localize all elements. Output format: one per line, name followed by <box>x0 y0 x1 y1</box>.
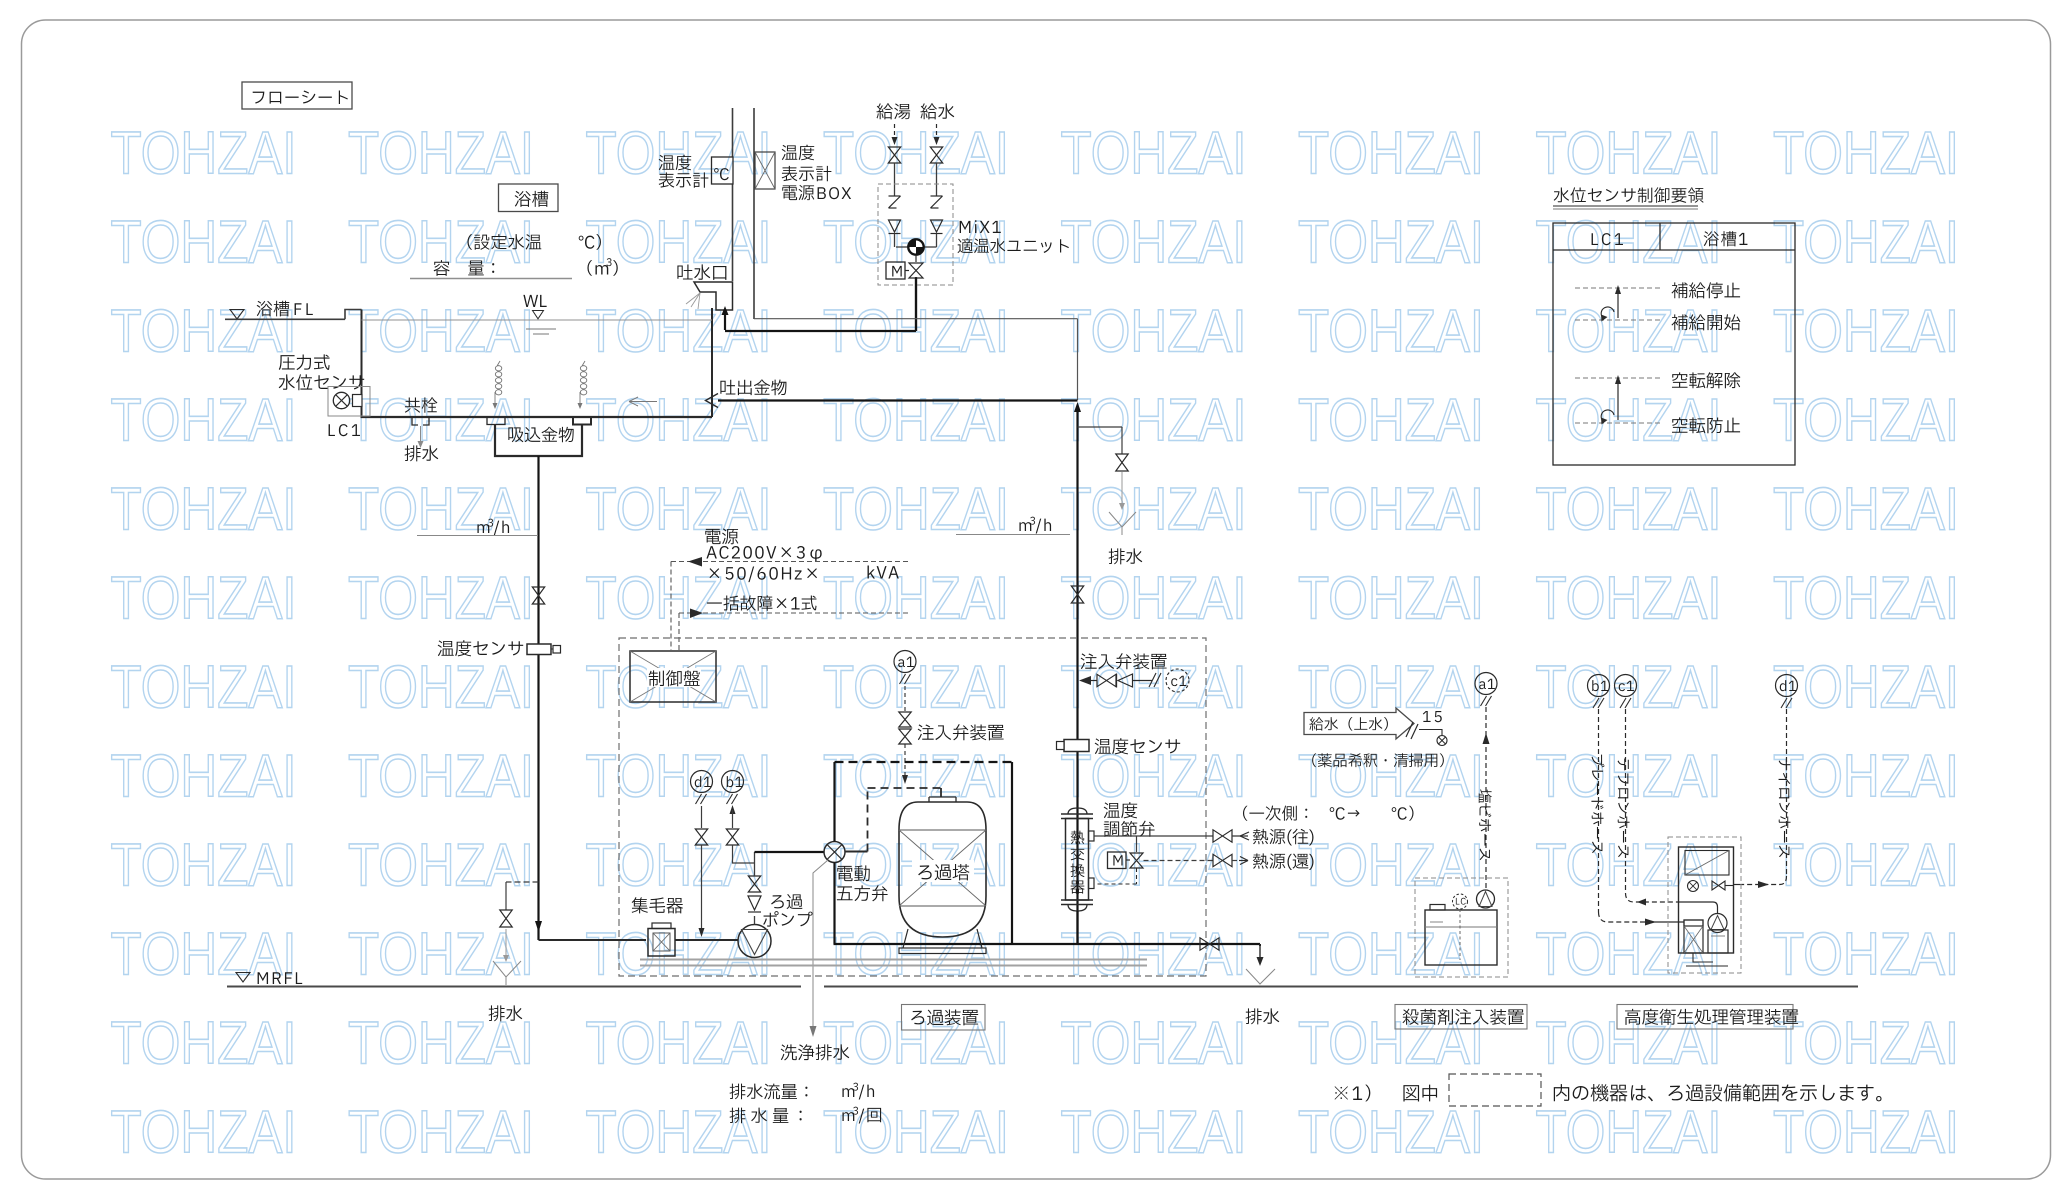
svg-text:TOHZAI: TOHZAI <box>1773 743 1959 810</box>
power dashed verticals <box>670 562 672 651</box>
jet spray symbol left <box>495 366 501 395</box>
text 給湯 <box>876 103 910 119</box>
control box 制御盤 <box>630 651 716 702</box>
svg-text:TOHZAI: TOHZAI <box>1061 565 1247 632</box>
text m3/h right <box>1019 522 1031 531</box>
LC dashed circle <box>1453 894 1468 909</box>
power box symbol <box>755 152 775 189</box>
svg-text:TOHZAI: TOHZAI <box>1536 1099 1722 1166</box>
text 排水量 <box>730 1108 746 1124</box>
tub rim step <box>345 310 362 320</box>
discharge fitting 吐出金物 <box>706 394 719 408</box>
heat source supply line 熱源(往) <box>1094 835 1213 837</box>
svg-text:TOHZAI: TOHZAI <box>586 387 772 454</box>
backwash dash line to tower neck <box>845 851 868 853</box>
text 共栓 <box>405 397 438 412</box>
text m3/h left <box>477 524 489 533</box>
a1 hose line <box>1485 707 1487 889</box>
WL marker <box>523 295 546 307</box>
tub FL line <box>225 318 345 320</box>
text 排水 top right <box>1109 548 1143 564</box>
sanitary device filter cartridge <box>1684 920 1703 953</box>
d1 circle right <box>1776 675 1798 697</box>
共栓 fitting <box>412 417 418 425</box>
reference line from wall <box>754 318 1078 320</box>
valve on suction line <box>532 587 544 604</box>
MRFL marker <box>236 973 250 983</box>
text 容量 <box>434 260 495 276</box>
svg-text:TOHZAI: TOHZAI <box>586 1010 772 1077</box>
b1 hose line <box>1598 709 1600 912</box>
a1 connection circle <box>894 651 916 673</box>
drain branch top right <box>1078 426 1123 428</box>
text 注入弁装置 center <box>918 724 1004 740</box>
pipe collector to pump <box>675 939 738 941</box>
sanitary device body <box>1679 847 1734 953</box>
d1 connection circle <box>691 771 713 793</box>
motor valve branch <box>1136 836 1138 852</box>
svg-text:TOHZAI: TOHZAI <box>1773 654 1959 721</box>
MIX unit dashed box <box>878 184 953 285</box>
svg-text:TOHZAI: TOHZAI <box>1061 1010 1247 1077</box>
svg-text:TOHZAI: TOHZAI <box>1536 565 1722 632</box>
svg-text:TOHZAI: TOHZAI <box>1773 476 1959 543</box>
power dashed line 2 <box>679 612 911 614</box>
svg-text:TOHZAI: TOHZAI <box>111 832 297 899</box>
sanitary device stand <box>1693 953 1713 962</box>
temp sensor on riser <box>1064 740 1089 752</box>
text ナイロンホース vertical <box>1779 758 1791 857</box>
drain to funnel right <box>1259 944 1261 946</box>
svg-text:TOHZAI: TOHZAI <box>1298 1010 1484 1077</box>
sanitary device dashed box <box>1668 837 1741 973</box>
pressure level sensor label <box>279 354 330 370</box>
pump discharge to 5-way valve <box>755 851 825 853</box>
text 排水流量 <box>730 1084 808 1100</box>
tub bottom <box>361 416 713 418</box>
svg-text:TOHZAI: TOHZAI <box>1773 120 1959 187</box>
svg-text:TOHZAI: TOHZAI <box>348 120 534 187</box>
a1 injection line <box>904 686 906 711</box>
svg-text:TOHZAI: TOHZAI <box>1298 120 1484 187</box>
valve 給湯 <box>888 147 900 163</box>
svg-text:TOHZAI: TOHZAI <box>348 209 534 276</box>
suction pipe down <box>537 456 539 921</box>
svg-text:TOHZAI: TOHZAI <box>348 1099 534 1166</box>
svg-text:TOHZAI: TOHZAI <box>111 387 297 454</box>
suction line to hair collector <box>539 939 647 941</box>
svg-text:TOHZAI: TOHZAI <box>111 120 297 187</box>
svg-text:TOHZAI: TOHZAI <box>111 921 297 988</box>
svg-text:TOHZAI: TOHZAI <box>348 654 534 721</box>
svg-text:TOHZAI: TOHZAI <box>348 298 534 365</box>
a1 circle right <box>1475 673 1497 695</box>
return riser with up arrow <box>1074 402 1081 412</box>
jet spray symbol right <box>580 366 586 395</box>
text 給水 <box>920 103 954 119</box>
heat source return line 熱源(還) <box>1144 860 1214 862</box>
block arrow 給水(上水) <box>1304 708 1414 739</box>
b1 connection circle <box>722 771 744 793</box>
panel row 空転防止 <box>1575 422 1660 424</box>
svg-text:TOHZAI: TOHZAI <box>1298 298 1484 365</box>
panel arrow 1 <box>1617 293 1619 318</box>
svg-text:TOHZAI: TOHZAI <box>823 387 1009 454</box>
panel header LC1 <box>1592 233 1623 245</box>
svg-text:TOHZAI: TOHZAI <box>1061 921 1247 988</box>
svg-text:TOHZAI: TOHZAI <box>1298 565 1484 632</box>
svg-text:TOHZAI: TOHZAI <box>823 743 1009 810</box>
svg-text:TOHZAI: TOHZAI <box>348 1010 534 1077</box>
svg-text:TOHZAI: TOHZAI <box>348 476 534 543</box>
text 温度調節弁 <box>1104 802 1137 818</box>
discharge pipe 吐出金物 line <box>718 399 1078 401</box>
svg-text:TOHZAI: TOHZAI <box>1773 832 1959 899</box>
svg-text:TOHZAI: TOHZAI <box>586 120 772 187</box>
svg-text:TOHZAI: TOHZAI <box>111 565 297 632</box>
svg-text:TOHZAI: TOHZAI <box>1536 120 1722 187</box>
equipment base gray lines <box>640 959 1147 961</box>
svg-text:TOHZAI: TOHZAI <box>111 1010 297 1077</box>
svg-text:TOHZAI: TOHZAI <box>1298 832 1484 899</box>
text 50/60Hz <box>709 566 817 582</box>
hair collector 集毛器 <box>632 897 683 913</box>
b1 line <box>730 805 736 814</box>
pump discharge check valves <box>754 916 756 925</box>
svg-text:TOHZAI: TOHZAI <box>111 476 297 543</box>
svg-text:TOHZAI: TOHZAI <box>348 387 534 454</box>
d1 hose line <box>1786 709 1788 876</box>
svg-text:TOHZAI: TOHZAI <box>1061 743 1247 810</box>
text 設定水温 <box>467 234 541 250</box>
power dashed line 1 <box>671 561 911 563</box>
svg-text:TOHZAI: TOHZAI <box>1298 476 1484 543</box>
wall pipe left <box>732 108 734 157</box>
svg-text:TOHZAI: TOHZAI <box>1061 387 1247 454</box>
panel row 空転解除 <box>1575 377 1660 379</box>
svg-text:TOHZAI: TOHZAI <box>586 209 772 276</box>
level sensor LC1 symbol <box>328 387 370 417</box>
valve on bottom drain line <box>1200 938 1219 950</box>
drain funnel left <box>493 961 521 977</box>
watermark TOHZAI grid <box>111 120 1960 1166</box>
共栓 drain arrow <box>420 426 422 442</box>
filtration enclosure dashed box <box>619 638 1206 976</box>
label box 殺菌剤注入装置 <box>1395 1005 1527 1030</box>
text 洗浄排水 <box>781 1044 850 1060</box>
panel title 水位センサ制御要領 <box>1554 187 1704 203</box>
svg-text:TOHZAI: TOHZAI <box>1298 743 1484 810</box>
tub right wall <box>711 308 713 417</box>
filter pump ろ過ポンプ <box>771 894 802 909</box>
svg-text:TOHZAI: TOHZAI <box>1061 120 1247 187</box>
svg-text:TOHZAI: TOHZAI <box>111 209 297 276</box>
suction fitting box <box>495 425 582 457</box>
M motor valve <box>915 256 917 263</box>
text 塩ビホース vertical <box>1479 789 1492 860</box>
drain branch left <box>506 881 539 883</box>
panel arrow 2 <box>1617 383 1619 420</box>
panel hook 1 <box>1601 307 1614 318</box>
svg-text:TOHZAI: TOHZAI <box>1773 921 1959 988</box>
text 排水 bottom right <box>1246 1008 1280 1024</box>
svg-text:TOHZAI: TOHZAI <box>1061 654 1247 721</box>
MRFL floor line <box>227 986 801 988</box>
title box フローシート <box>242 82 352 109</box>
svg-text:TOHZAI: TOHZAI <box>1061 1099 1247 1166</box>
mixing valve MIX1 <box>896 246 908 248</box>
svg-text:TOHZAI: TOHZAI <box>1536 476 1722 543</box>
temp sensor left <box>438 640 524 656</box>
return pipe into spout <box>724 314 726 330</box>
sterilizer tank <box>1425 910 1497 965</box>
svg-text:TOHZAI: TOHZAI <box>823 120 1009 187</box>
label box 高度衛生処理管理装置 <box>1617 1005 1793 1030</box>
svg-text:TOHZAI: TOHZAI <box>1061 298 1247 365</box>
panel row 補給開始 <box>1575 319 1660 321</box>
svg-text:TOHZAI: TOHZAI <box>348 743 534 810</box>
text 吸込金物 <box>508 427 573 443</box>
text 温度表示計 left <box>659 155 692 171</box>
svg-text:TOHZAI: TOHZAI <box>1536 1010 1722 1077</box>
label box 浴槽 <box>499 184 559 212</box>
svg-text:TOHZAI: TOHZAI <box>1536 654 1722 721</box>
c1 circle right <box>1615 675 1637 697</box>
svg-text:TOHZAI: TOHZAI <box>348 565 534 632</box>
note ※1 <box>1335 1085 1371 1102</box>
tub water line <box>362 319 713 321</box>
text 注入弁装置 right <box>1081 653 1167 669</box>
injection valves a1 <box>899 712 911 727</box>
text ろ過装置 label box <box>902 1005 986 1031</box>
text 温度表示計電源BOX <box>782 145 815 161</box>
injection valve train c1 <box>1079 676 1091 685</box>
motorized 5-way valve 電動五方弁 <box>824 842 845 863</box>
pipe valve bottom loop <box>833 863 835 945</box>
svg-text:TOHZAI: TOHZAI <box>1773 1099 1959 1166</box>
text MiX1 <box>960 220 1001 233</box>
valve 給水 <box>930 147 942 163</box>
panel hook 2 <box>1601 410 1614 421</box>
svg-text:TOHZAI: TOHZAI <box>586 476 772 543</box>
svg-text:TOHZAI: TOHZAI <box>111 743 297 810</box>
text 電源 <box>705 528 738 544</box>
svg-text:TOHZAI: TOHZAI <box>1061 476 1247 543</box>
text 排水 left drain <box>489 1005 523 1021</box>
supply dashed arrows <box>894 124 896 138</box>
underline <box>410 278 572 280</box>
text ブレードホース vertical <box>1591 755 1604 853</box>
c1 hose line <box>1625 709 1627 893</box>
b1 circle right <box>1588 675 1610 697</box>
d1 line <box>701 806 703 828</box>
heat exchanger 熱交換器 <box>1068 808 1087 814</box>
wall pipe right <box>753 108 755 319</box>
svg-text:TOHZAI: TOHZAI <box>111 1099 297 1166</box>
svg-text:TOHZAI: TOHZAI <box>1536 921 1722 988</box>
suction fitting stubs <box>487 417 505 425</box>
svg-text:TOHZAI: TOHZAI <box>1536 209 1722 276</box>
svg-text:TOHZAI: TOHZAI <box>1061 209 1247 276</box>
svg-text:TOHZAI: TOHZAI <box>1773 1010 1959 1077</box>
panel header 浴槽1 <box>1704 231 1748 246</box>
tower legs and base <box>903 929 908 948</box>
svg-text:TOHZAI: TOHZAI <box>586 1099 772 1166</box>
marker 浴槽FL <box>230 310 244 320</box>
svg-text:TOHZAI: TOHZAI <box>1773 209 1959 276</box>
tub left wall <box>361 310 363 418</box>
panel box <box>1553 223 1795 465</box>
pipe valve to tower top (dashed bold) <box>833 762 835 842</box>
text AC200V <box>706 546 821 562</box>
hose bib symbol <box>1437 736 1447 746</box>
text テフロンホース vertical <box>1618 758 1630 857</box>
wash drain leader <box>813 860 828 1026</box>
text 一括故障 <box>707 595 817 610</box>
text LC1 <box>329 424 360 436</box>
svg-text:TOHZAI: TOHZAI <box>823 1099 1009 1166</box>
sanitary device small tank <box>1708 914 1727 933</box>
text 適温水ユニット <box>958 238 1069 253</box>
text 一次側 <box>1243 806 1307 821</box>
svg-text:TOHZAI: TOHZAI <box>586 743 772 810</box>
svg-text:TOHZAI: TOHZAI <box>823 565 1009 632</box>
svg-text:TOHZAI: TOHZAI <box>1298 1099 1484 1166</box>
svg-text:TOHZAI: TOHZAI <box>1298 209 1484 276</box>
text 排水 under 共栓 <box>405 445 439 461</box>
svg-text:TOHZAI: TOHZAI <box>1298 654 1484 721</box>
spout 吐水口 shape <box>694 282 733 310</box>
svg-text:TOHZAI: TOHZAI <box>111 654 297 721</box>
sterilizer unit dashed box <box>1415 878 1508 977</box>
temp display box ℃ <box>712 157 734 184</box>
svg-text:TOHZAI: TOHZAI <box>1773 298 1959 365</box>
svg-text:TOHZAI: TOHZAI <box>1536 832 1722 899</box>
valve on return riser <box>1071 586 1083 603</box>
svg-text:TOHZAI: TOHZAI <box>1536 298 1722 365</box>
svg-text:TOHZAI: TOHZAI <box>1773 387 1959 454</box>
svg-text:TOHZAI: TOHZAI <box>823 476 1009 543</box>
svg-text:TOHZAI: TOHZAI <box>1773 565 1959 632</box>
svg-text:TOHZAI: TOHZAI <box>586 832 772 899</box>
svg-text:TOHZAI: TOHZAI <box>1536 743 1722 810</box>
check valves in MIX <box>889 195 901 197</box>
panel row 補給停止 <box>1575 287 1660 289</box>
filter tower ろ過塔 <box>899 802 986 937</box>
svg-text:TOHZAI: TOHZAI <box>823 1010 1009 1077</box>
svg-text:TOHZAI: TOHZAI <box>1298 387 1484 454</box>
text 薬品希釈・清掃用 <box>1312 753 1444 767</box>
text 吐水口 <box>677 264 726 279</box>
sterilizer pump <box>1477 890 1495 908</box>
